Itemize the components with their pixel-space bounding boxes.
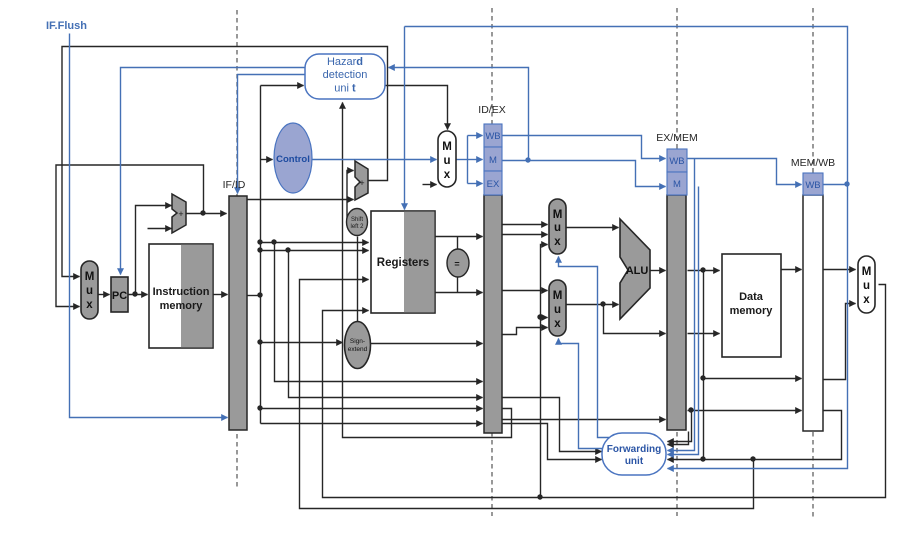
wire ID/EX WB to EX/MEM WB bbox=[503, 136, 666, 159]
svg-text:EX: EX bbox=[487, 179, 500, 190]
svg-text:M: M bbox=[553, 209, 563, 221]
svg-text:x: x bbox=[554, 318, 561, 330]
registers file bbox=[371, 211, 435, 313]
junction instruction out bbox=[257, 292, 262, 297]
wire comparator tap top bbox=[457, 237, 459, 251]
wire PC tap up to adder bbox=[136, 206, 172, 295]
svg-text:Registers: Registers bbox=[377, 257, 429, 269]
stage separator dashed line MEM/WB bbox=[812, 8, 814, 517]
wire hazard PCWrite to PC bbox=[121, 68, 306, 275]
ALU bbox=[620, 219, 650, 319]
svg-text:x: x bbox=[554, 236, 561, 248]
wire mux B output to ALU bbox=[567, 304, 619, 306]
svg-text:Forwarding: Forwarding bbox=[607, 444, 661, 455]
wire ID/EX rs to forwarding unit bbox=[503, 398, 602, 452]
wire rd field to ID/EX bbox=[261, 408, 483, 410]
wire read register 2 bus bbox=[261, 250, 369, 252]
wire MEM/WB rd loop to forwarding unit bbox=[668, 411, 842, 460]
svg-text:x: x bbox=[444, 169, 451, 181]
wire adder output to IF/ID bbox=[187, 213, 227, 215]
svg-text:WB: WB bbox=[805, 180, 820, 191]
svg-text:uni t: uni t bbox=[334, 83, 356, 95]
junction EX/MEM rd bbox=[688, 407, 693, 412]
wire rt field down to ID/EX bbox=[289, 251, 483, 398]
svg-text:Shift: Shift bbox=[351, 217, 363, 223]
wire read data 2 to ID/EX bbox=[436, 292, 483, 294]
svg-text:u: u bbox=[554, 304, 561, 316]
wire data memory read data to MEM/WB bbox=[782, 269, 802, 271]
wire bus to hazard detection unit bbox=[261, 85, 304, 87]
wire PC mux to PC bbox=[99, 294, 110, 296]
wire branch target: adder out up over top to PC mux bbox=[62, 47, 388, 277]
svg-text:x: x bbox=[86, 299, 93, 311]
svg-text:left 2: left 2 bbox=[350, 224, 364, 230]
wire ALU result forward vertical bbox=[703, 271, 705, 460]
control unit ellipse bbox=[274, 123, 312, 193]
svg-text:M: M bbox=[489, 155, 497, 166]
svg-text:unit: unit bbox=[625, 456, 644, 467]
wire ID/EX MemRead up to hazard unit bbox=[389, 68, 529, 161]
ALU input mux A bbox=[549, 199, 566, 254]
wire EX/MEM bar bottom tap to forwarding unit bbox=[668, 432, 689, 445]
wire IF.Flush to IF/ID bbox=[70, 34, 228, 418]
sign extend bbox=[345, 322, 371, 369]
wire EX/MEM WB to MEM/WB WB bbox=[688, 159, 802, 185]
wire ID/EX rd to EX/MEM bbox=[503, 419, 666, 421]
IF/ID pipeline register bbox=[223, 179, 247, 430]
svg-text:M: M bbox=[553, 290, 563, 302]
junction forward MEMWB to mux B bbox=[537, 314, 542, 319]
wire write back data return bbox=[323, 285, 886, 498]
wire hazard IF/ID write enable bbox=[238, 75, 306, 194]
wire ALU result bypass to MEM/WB bbox=[704, 378, 802, 380]
wire forward MEMWB vertical riser bbox=[541, 245, 548, 498]
wire rs field down to ID/EX bbox=[275, 243, 483, 382]
svg-text:ALU: ALU bbox=[626, 265, 649, 277]
junction MEM/WB RegWrite bbox=[844, 181, 849, 186]
junction forward MEMWB on write back wire bbox=[537, 494, 542, 499]
MEM/WB pipeline register bbox=[791, 157, 835, 431]
svg-text:memory: memory bbox=[160, 300, 204, 312]
wire ID/EX read data 1 to mux A bbox=[503, 224, 548, 226]
svg-text:=: = bbox=[454, 259, 459, 269]
wire forward MEMWB into mux B bbox=[541, 317, 548, 319]
wire PC to instruction memory bbox=[129, 294, 148, 296]
wire read data 1 to ID/EX bbox=[436, 236, 483, 238]
wire forward EXMEM into mux A bbox=[503, 234, 548, 236]
wire ID/EX M to EX/MEM M bbox=[503, 161, 666, 187]
wire regwrite junction down to forwarding unit bbox=[668, 185, 848, 469]
wire jog into mux B third input bbox=[503, 328, 548, 335]
svg-text:WB: WB bbox=[669, 156, 684, 167]
branch adder bbox=[355, 161, 368, 200]
junction rt bus tap bbox=[285, 247, 290, 252]
wire instruction memory to IF/ID bbox=[214, 294, 228, 296]
PC source mux bbox=[81, 261, 98, 319]
junction PC output bbox=[132, 291, 137, 296]
svg-text:ID/EX: ID/EX bbox=[478, 104, 505, 116]
PC+4 adder bbox=[172, 194, 186, 233]
wire EX/MEM rd to MEM/WB bbox=[688, 410, 802, 412]
junction rd tap bbox=[257, 405, 262, 410]
wire shift left 2 output to branch adder top input bbox=[347, 171, 354, 223]
svg-text:x: x bbox=[863, 294, 870, 306]
wire comparator tap bottom bbox=[457, 278, 459, 293]
wire EX/MEM M signal down to forwarding unit bbox=[668, 187, 699, 455]
wire write register number return bbox=[300, 280, 754, 509]
wire IF/ID PC+4 out to branch adder bbox=[248, 199, 354, 201]
equality comparator bbox=[447, 249, 469, 277]
wire MEM/WB read data to WB mux bbox=[824, 269, 856, 271]
svg-text:u: u bbox=[863, 280, 870, 292]
svg-text:+: + bbox=[359, 178, 364, 188]
svg-text:EX/MEM: EX/MEM bbox=[656, 132, 697, 144]
junction rs bus tap bbox=[271, 239, 276, 244]
wire PC+4 loop to PC mux bbox=[56, 165, 204, 307]
forwarding unit bbox=[602, 433, 666, 475]
wire MEM/WB RegWrite loop over top to Registers bbox=[404, 27, 406, 210]
svg-text:u: u bbox=[86, 285, 93, 297]
junction adder output bbox=[200, 210, 205, 215]
svg-text:IF.Flush: IF.Flush bbox=[46, 20, 87, 32]
svg-text:Sign-: Sign- bbox=[350, 338, 365, 345]
junction ALU forward on rd wire bbox=[700, 456, 705, 461]
wire ForwardA control to mux A bbox=[559, 257, 613, 438]
svg-text:extend: extend bbox=[348, 346, 368, 353]
wire sign extend top to shift left 2 bbox=[357, 237, 359, 323]
svg-text:memory: memory bbox=[730, 305, 774, 317]
wire store data down and to EX/MEM bbox=[604, 305, 666, 334]
wire instruction out of IF/ID bbox=[248, 295, 261, 297]
wire EX/MEM WB signal down to forwarding unit bbox=[668, 159, 695, 451]
wire control output to control mux bbox=[313, 159, 437, 161]
svg-text:M: M bbox=[85, 271, 95, 283]
ID/EX pipeline register bbox=[478, 104, 505, 433]
junction EX/MEM ALU result bbox=[700, 267, 705, 272]
svg-text:M: M bbox=[862, 266, 872, 278]
instruction memory bbox=[149, 244, 213, 348]
svg-text:WB: WB bbox=[485, 131, 500, 142]
junction immediate tap bbox=[257, 339, 262, 344]
data memory bbox=[722, 254, 781, 357]
wire bus to Control bbox=[261, 159, 273, 161]
ALU input mux B bbox=[549, 280, 566, 336]
wire zero stub into control mux bbox=[423, 184, 437, 186]
stage separator dashed line EX/MEM bbox=[676, 8, 678, 516]
junction rt bus left bbox=[257, 247, 262, 252]
svg-text:Hazard: Hazard bbox=[327, 56, 363, 68]
svg-text:Instruction: Instruction bbox=[153, 286, 210, 298]
wire sign extend output to ID/EX bbox=[371, 343, 483, 345]
wire ID/EX read data 2 to mux B bbox=[503, 290, 548, 292]
write back mux bbox=[858, 256, 875, 313]
wire ID/EX rt to forwarding unit bbox=[503, 424, 602, 460]
wire control mux out to ID/EX WB M EX bbox=[457, 159, 468, 161]
wire EX/MEM rd down to forwarding unit bbox=[668, 411, 692, 442]
svg-text:M: M bbox=[442, 141, 452, 153]
wire EX/MEM ALU result to data memory bbox=[688, 270, 720, 272]
wire mux A output to ALU bbox=[567, 227, 619, 229]
wire ALU result to EX/MEM bbox=[651, 270, 666, 272]
svg-text:Control: Control bbox=[276, 154, 310, 165]
svg-text:u: u bbox=[443, 155, 450, 167]
wire read register 1 bus bbox=[261, 242, 369, 244]
wire ID/EX rt loop to hazard unit bbox=[343, 103, 512, 438]
svg-text:+: + bbox=[178, 209, 183, 219]
svg-text:IF/ID: IF/ID bbox=[223, 179, 246, 191]
wire hazard unit to control mux bbox=[386, 86, 448, 130]
control zero mux bbox=[438, 131, 456, 187]
EX/MEM pipeline register bbox=[656, 132, 697, 430]
svg-text:u: u bbox=[554, 222, 561, 234]
wire ForwardB control to mux B bbox=[559, 339, 608, 449]
stage separator dashed line ID/EX bbox=[491, 8, 493, 516]
wire instruction bus vertical bbox=[260, 86, 262, 424]
svg-text:Data: Data bbox=[739, 291, 764, 303]
junction write register wire bbox=[750, 456, 755, 461]
wire MEM/WB ALU result loop to WB mux bbox=[824, 304, 856, 380]
wire EX/MEM store data to data memory bbox=[688, 333, 720, 335]
shift left 2 bbox=[347, 209, 368, 236]
hazard detection unit bbox=[305, 54, 385, 99]
stage separator dashed line IF/ID bbox=[236, 10, 238, 487]
wire field to ID/EX lowest bbox=[261, 423, 483, 425]
PC register bbox=[111, 277, 128, 312]
junction mux B output bbox=[600, 301, 605, 306]
wire to sign extend bbox=[261, 342, 343, 344]
wire constant 4 stub into adder bbox=[148, 228, 172, 230]
wire MEM/WB WB to junction bbox=[824, 184, 848, 186]
svg-text:MEM/WB: MEM/WB bbox=[791, 157, 835, 169]
junction rs bus left bbox=[257, 239, 262, 244]
svg-text:detection: detection bbox=[323, 69, 368, 81]
junction ID/EX MemRead bbox=[525, 157, 530, 162]
svg-text:M: M bbox=[673, 179, 681, 190]
junction ALU result bypass bbox=[700, 375, 705, 380]
svg-text:PC: PC bbox=[112, 290, 127, 302]
